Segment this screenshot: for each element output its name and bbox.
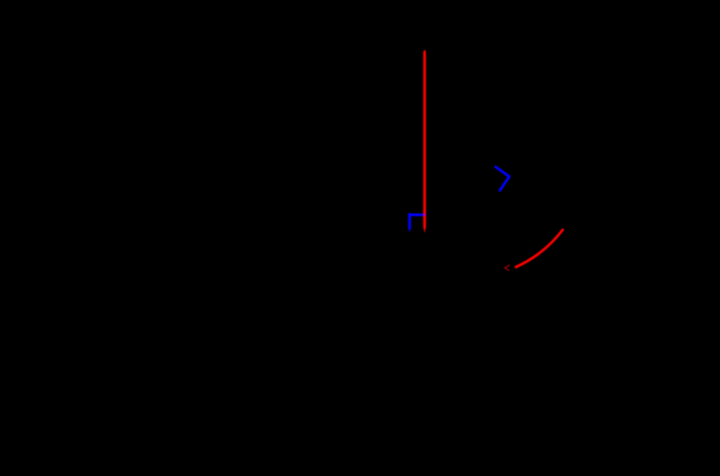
blue elbow arrow (right-angle marker with arrow tips) <box>408 213 426 232</box>
red arc arrowhead (open tip chevron) <box>505 265 509 270</box>
red vertical vector (shaft) <box>423 50 426 233</box>
red angle arc <box>515 229 563 268</box>
blue arc arrowhead (open tip chevron) <box>496 167 510 191</box>
